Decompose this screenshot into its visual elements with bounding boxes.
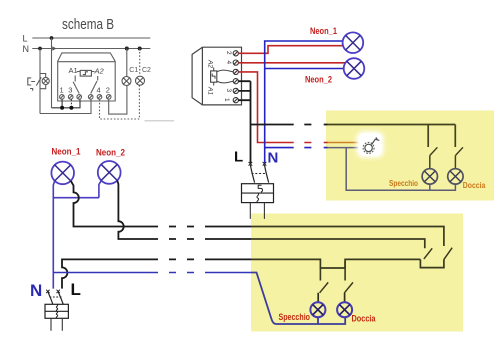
yellow highlight box 1 (top right)	[326, 111, 494, 201]
node dot N c2	[138, 47, 142, 51]
lamp Neon_1 (top)	[343, 32, 364, 53]
wire bus2 dashes	[169, 238, 251, 240]
contact x mark N	[46, 290, 49, 293]
switch S3 blade	[456, 147, 464, 155]
wire red terminal A2 down	[238, 72, 293, 143]
svg-text:4: 4	[225, 61, 232, 65]
node dot t3	[69, 106, 73, 110]
wire stems to lamps	[318, 293, 344, 302]
wire stub terminal 1	[61, 99, 63, 107]
fan icon white plate	[356, 131, 384, 158]
wire from N down	[39, 49, 41, 114]
coil wires to terminals	[217, 70, 233, 83]
svg-text:3: 3	[225, 89, 232, 93]
lamp C2	[136, 76, 145, 85]
wire black from Neon_1 with hop	[71, 181, 158, 227]
wire black terminals to L vertical	[238, 81, 250, 163]
switch S5 blade	[344, 282, 353, 292]
relay U1 body	[58, 53, 115, 101]
lamp Doccia (lower)	[337, 302, 352, 317]
wire bus4 dashes	[169, 272, 251, 274]
wire C2 top dotted	[139, 49, 141, 76]
arrow on N wire	[52, 46, 56, 50]
fan icon	[365, 144, 372, 151]
svg-text:A1: A1	[207, 86, 214, 95]
wire stub terminal 3 dashed	[70, 99, 72, 107]
svg-text:Specchio: Specchio	[279, 312, 311, 322]
svg-text:A2: A2	[94, 67, 105, 76]
lamp Specchio (upper)	[422, 169, 437, 184]
wire blue horizontal to box1	[265, 147, 328, 149]
switch S4 blade	[320, 282, 329, 292]
svg-text:L: L	[71, 280, 81, 299]
contact x mark L	[57, 290, 60, 293]
wires below breaker Q1	[51, 318, 62, 331]
svg-text:2: 2	[225, 51, 232, 55]
pushbutton S1	[28, 78, 35, 91]
node dot t1	[60, 106, 64, 110]
wire blue N in box2	[251, 273, 345, 325]
breaker Q2 box	[242, 184, 274, 203]
wires below breaker	[250, 203, 264, 219]
svg-text:N: N	[268, 150, 279, 167]
contact x mark L	[249, 162, 253, 166]
svg-text:2: 2	[106, 86, 110, 95]
breaker Q1 link dashed	[50, 296, 63, 298]
breaker Q2 blades	[250, 165, 268, 183]
lamp Specchio (lower)	[310, 302, 325, 317]
svg-text:1: 1	[60, 86, 64, 95]
wire U-link under right switches	[420, 259, 444, 267]
svg-text:Specchio: Specchio	[389, 178, 418, 188]
contact blade left	[73, 76, 79, 94]
contact x mark N	[263, 162, 267, 166]
svg-text:L: L	[23, 34, 28, 44]
wire blue neutral: lamp1, branch lamp2, down to breaker	[265, 41, 344, 163]
wire bus3 dashes	[169, 258, 251, 260]
svg-text:C1: C1	[129, 67, 138, 74]
wire red terminal4 to Neon_2	[238, 62, 345, 64]
breaker Q1 blades	[48, 292, 63, 305]
wire N bus	[32, 48, 150, 50]
lamp C1	[122, 77, 131, 86]
svg-text:Neon_1: Neon_1	[52, 147, 82, 158]
wire bus1 in box2	[251, 227, 444, 247]
wire N return slate	[346, 148, 455, 191]
svg-text:L: L	[234, 149, 243, 166]
lamp Neon_2 (left)	[98, 161, 121, 184]
wire red terminal2 to Neon_1	[238, 46, 343, 54]
wire bus3 L from bottom breaker with hop over blue	[62, 259, 158, 288]
right pair feed from bus1	[443, 245, 445, 247]
wire C1 top to N	[126, 49, 128, 77]
switch S2 blade	[430, 147, 438, 155]
svg-text:N: N	[30, 281, 42, 300]
wire bus3 L in box2 with jog	[251, 259, 420, 268]
wire from L down	[51, 38, 53, 108]
wire switch stems to lamps	[430, 155, 456, 168]
relay coil K2	[211, 71, 217, 82]
switch S6 blade	[424, 248, 432, 259]
lamp S1	[42, 77, 49, 84]
wire bus2 in box2	[251, 239, 425, 248]
lamp Neon_1 (left)	[51, 162, 74, 185]
contact blade right	[91, 76, 98, 94]
svg-text:schema B: schema B	[62, 16, 114, 33]
svg-text:Neon_2: Neon_2	[96, 148, 125, 159]
relay U2 body	[192, 47, 241, 105]
wire red/orange feed to fan	[328, 142, 359, 144]
breaker Q1 box	[45, 304, 68, 318]
wire black from Neon_2 with hop	[117, 181, 158, 239]
node dot L	[50, 36, 54, 40]
yellow highlight box 2 (bottom)	[251, 214, 463, 332]
node dot N left	[38, 47, 42, 51]
wire terminal 2 to lamp C1	[109, 86, 127, 115]
svg-text:1: 1	[223, 98, 230, 102]
lamp Doccia (upper)	[448, 169, 463, 184]
wire L bus	[32, 37, 150, 39]
svg-text:Neon_1: Neon_1	[310, 26, 338, 37]
wire red dash	[304, 142, 327, 144]
wire purple neutral from lamps down to breaker	[53, 181, 101, 289]
svg-text:C2: C2	[142, 67, 151, 74]
wire L olive across box1	[328, 125, 456, 148]
svg-text:Neon_2: Neon_2	[305, 75, 332, 86]
wire taps to switches	[320, 261, 345, 281]
svg-text:4: 4	[97, 86, 101, 95]
relay coil K1	[80, 70, 91, 76]
wire C2 dotted loop	[100, 85, 140, 119]
wire bus1 dashes	[169, 226, 251, 228]
wire black branch to box1	[251, 124, 328, 126]
wire bus4 blue N	[53, 272, 158, 274]
faint margin line	[145, 120, 175, 122]
wire N loop to terminal 4	[40, 99, 91, 113]
svg-text:Doccia: Doccia	[352, 314, 377, 324]
switch S7 blade	[444, 248, 452, 260]
wire L loop to terminals 1,3	[52, 99, 81, 107]
wire blue/slate feed to fan	[328, 147, 359, 149]
breaker Q2 link dashed	[252, 173, 268, 175]
svg-text:A1: A1	[69, 66, 78, 75]
node dot N c1	[125, 47, 129, 51]
svg-text:3: 3	[68, 86, 72, 95]
terminals row	[60, 95, 111, 100]
svg-text:Doccia: Doccia	[463, 180, 486, 190]
svg-text:A2: A2	[207, 59, 214, 68]
terminals column	[233, 51, 238, 103]
lamp Neon_2 (top)	[344, 58, 365, 79]
svg-text:N: N	[23, 44, 30, 54]
